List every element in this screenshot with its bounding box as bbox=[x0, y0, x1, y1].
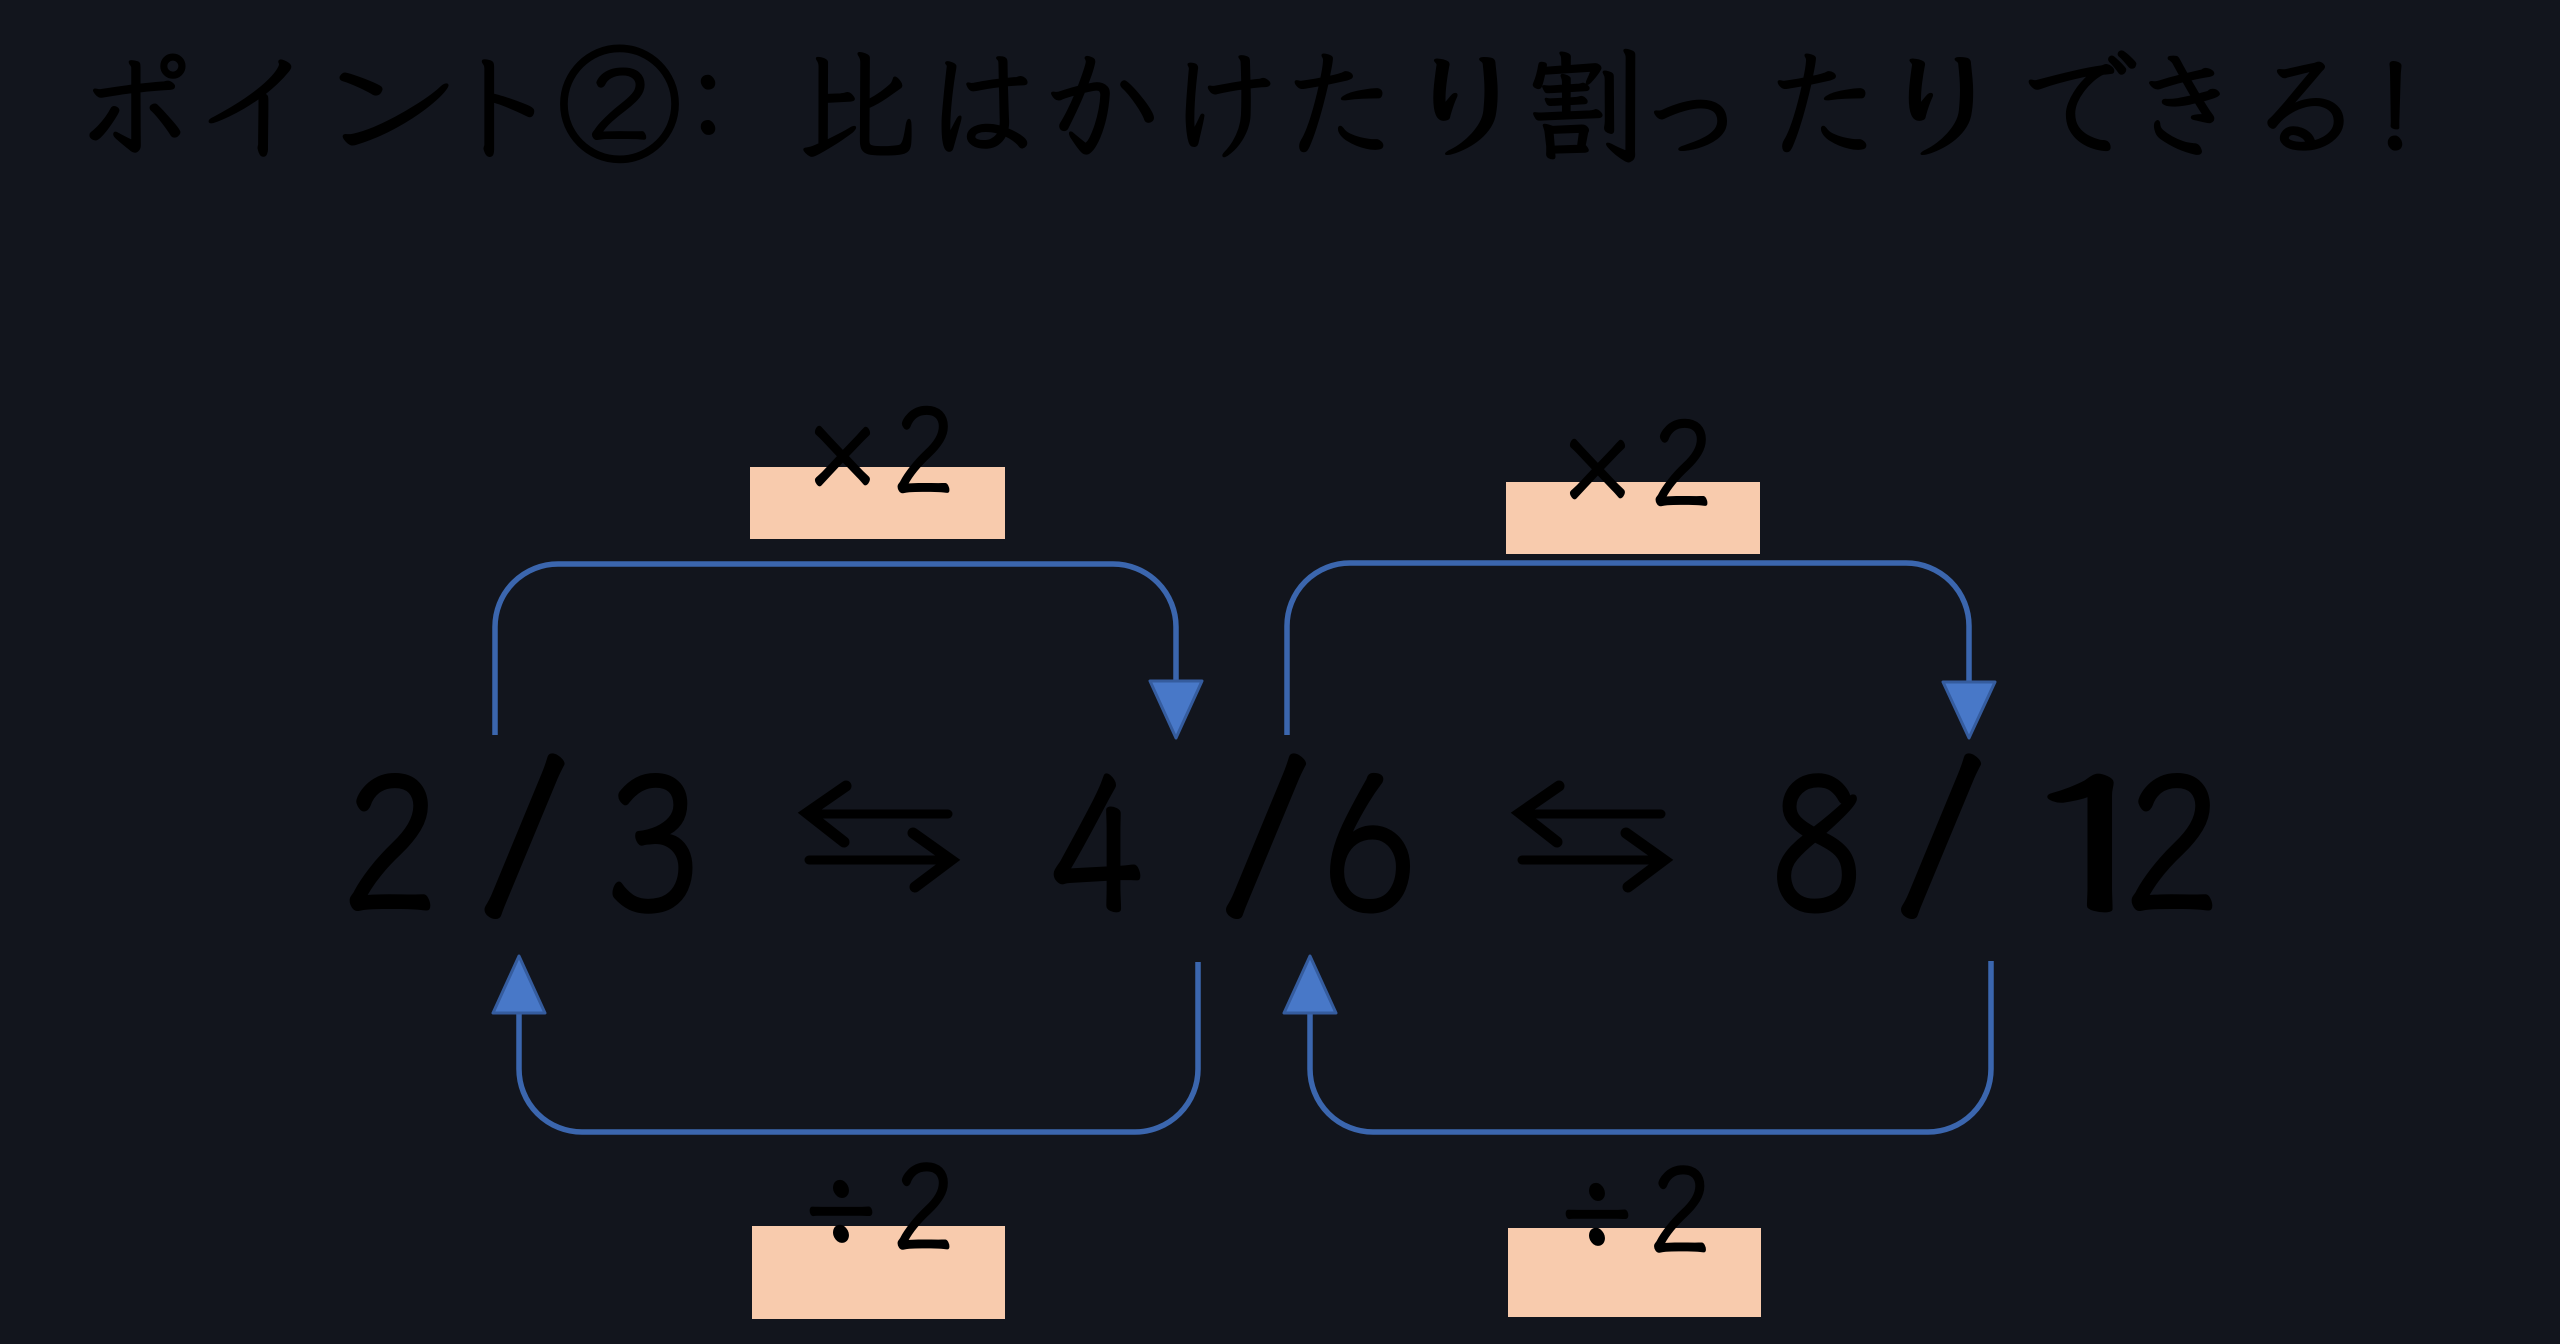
title char 15 り bbox=[1910, 58, 1972, 154]
expression digit 3 bbox=[614, 775, 691, 913]
expression digit / bbox=[486, 755, 562, 917]
title char 4 ② bbox=[561, 45, 678, 162]
top curved connector 1 (2/3 to 4/6) bbox=[495, 564, 1176, 735]
title char 5 ： bbox=[702, 76, 715, 134]
box ×2 top-left (peach) bbox=[750, 467, 1005, 539]
title char 12 割 bbox=[1534, 50, 1635, 162]
title char 11 り bbox=[1434, 58, 1496, 154]
expression digit 2 bbox=[2133, 775, 2211, 910]
title char 18 る bbox=[2268, 62, 2343, 149]
bottom curved connector 2 (8/12 back to 4/6) bbox=[1310, 961, 1991, 1132]
box ×2 top-right (peach) bbox=[1506, 482, 1760, 554]
arrowhead down (connector 1) bbox=[1150, 681, 1202, 738]
title char 3 ト bbox=[483, 60, 534, 156]
double arrow ⇆ no.1: top leftwards arrowhead barb bbox=[807, 786, 846, 842]
label ÷2 bottom-right: 2 bbox=[1655, 1166, 1706, 1252]
arrowhead up (connector 4) bbox=[1284, 956, 1336, 1013]
label ×2 top-right: × bbox=[1571, 439, 1625, 498]
double arrow ⇆ no.1: bottom rightwards arrow shaft bbox=[809, 856, 938, 865]
double arrow ⇆ no.1: bottom rightwards arrowhead barb bbox=[913, 833, 951, 887]
title char 14 た bbox=[1778, 54, 1865, 151]
label ÷2 bottom-left: ÷ bbox=[810, 1181, 871, 1243]
label ×2 top-left: 2 bbox=[898, 406, 949, 492]
arrowhead up (connector 3) bbox=[493, 956, 545, 1013]
expression digit 2 bbox=[351, 775, 429, 910]
title char 16 で bbox=[2029, 51, 2135, 150]
bottom curved connector 1 (4/6 back to 2/3) bbox=[519, 962, 1198, 1132]
double arrow ⇆ no.2: top leftwards arrowhead barb bbox=[1520, 786, 1559, 842]
expression digit / bbox=[1228, 755, 1304, 917]
expression digit 8 bbox=[1778, 775, 1855, 912]
label ÷2 bottom-left: 2 bbox=[898, 1163, 949, 1249]
double arrow ⇆ no.2: bottom rightwards arrow shaft bbox=[1522, 856, 1651, 865]
double arrow ⇆ no.1: top leftwards arrow shaft bbox=[818, 810, 948, 819]
label ×2 top-left: × bbox=[816, 426, 870, 485]
label ÷2 bottom-right: ÷ bbox=[1566, 1184, 1627, 1246]
expression digit 4 bbox=[1055, 775, 1139, 911]
title char 7 は bbox=[942, 57, 1026, 151]
box ÷2 bottom-left (peach) bbox=[752, 1226, 1005, 1319]
double arrow ⇆ no.2: bottom rightwards arrowhead barb bbox=[1626, 833, 1664, 887]
title char 0 ポ bbox=[90, 54, 184, 151]
title char 2 ン bbox=[341, 73, 448, 144]
title char 10 た bbox=[1295, 54, 1382, 151]
title char 1 イ bbox=[209, 60, 290, 156]
arrowhead down (connector 2) bbox=[1943, 682, 1995, 738]
title char 13 っ bbox=[1655, 101, 1726, 151]
title char 9 け bbox=[1186, 56, 1269, 156]
expression digit 6 bbox=[1331, 774, 1408, 912]
title char 19 ！ bbox=[2389, 62, 2402, 150]
double arrow ⇆ no.2: top leftwards arrow shaft bbox=[1531, 810, 1661, 819]
expression digit / bbox=[1903, 755, 1979, 917]
title char 17 き bbox=[2150, 56, 2219, 154]
top curved connector 2 (4/6 to 8/12) bbox=[1287, 563, 1969, 735]
label ×2 top-right: 2 bbox=[1656, 419, 1707, 505]
title char 8 か bbox=[1052, 57, 1153, 154]
expression digit 1 bbox=[2049, 775, 2111, 911]
title char 6 比 bbox=[804, 53, 911, 156]
box ÷2 bottom-right (peach) bbox=[1508, 1228, 1761, 1317]
